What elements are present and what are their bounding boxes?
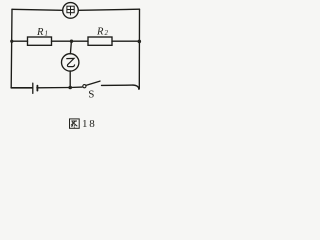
svg-text:1: 1 [45,29,49,37]
svg-text:1: 1 [82,118,88,130]
svg-text:R: R [96,27,104,38]
svg-text:2: 2 [105,29,109,37]
svg-text:8: 8 [89,118,95,130]
svg-text:S: S [88,88,94,100]
svg-text:R: R [36,27,44,38]
